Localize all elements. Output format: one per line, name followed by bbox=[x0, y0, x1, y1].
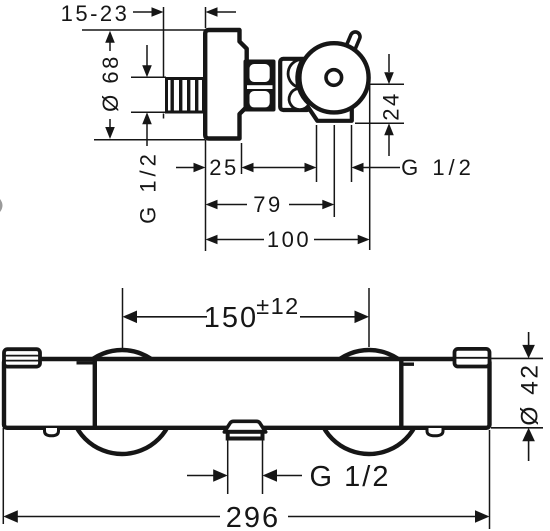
svg-text:15-23: 15-23 bbox=[61, 1, 130, 26]
lever knob on handwheel bbox=[345, 30, 362, 53]
grip mark dash (right) bbox=[403, 363, 415, 366]
extension line from escutcheon base bbox=[205, 140, 207, 251]
left wall connector bbox=[4, 349, 40, 366]
inlet thread (hatched pipe nipple) bbox=[167, 79, 204, 113]
hose outlet union (center) bbox=[224, 421, 265, 438]
wire: wall reference extension line bbox=[163, 7, 165, 119]
stray cropped glyph at page edge bbox=[0, 199, 3, 212]
svg-text:24: 24 bbox=[379, 91, 404, 120]
stop button (right) bbox=[427, 428, 443, 436]
dimension 15-23 bbox=[61, 1, 236, 28]
right wall escutcheon disc bbox=[317, 350, 421, 454]
svg-text:150: 150 bbox=[204, 302, 258, 334]
dimension Ø 42 bbox=[491, 332, 544, 461]
svg-text:296: 296 bbox=[226, 502, 280, 531]
escutcheon (wall flange, side view) bbox=[205, 30, 247, 139]
body seam line (right) bbox=[399, 358, 403, 429]
svg-text:G 1/2: G 1/2 bbox=[401, 155, 475, 180]
dimension 100 bbox=[206, 227, 370, 252]
handwheel (outer circle) bbox=[299, 43, 368, 112]
dimension 150±12 bbox=[123, 288, 370, 350]
body seam line (left) bbox=[93, 358, 97, 429]
dimension 25 bbox=[176, 143, 317, 180]
outlet spigot (under handle) bbox=[304, 101, 352, 121]
extension line handle axis bbox=[333, 125, 335, 217]
handle grip scallops bbox=[288, 60, 302, 88]
svg-text:25: 25 bbox=[209, 155, 238, 180]
svg-text:Ø 68: Ø 68 bbox=[98, 54, 123, 112]
svg-text:G 1/2: G 1/2 bbox=[136, 150, 161, 224]
svg-text:100: 100 bbox=[267, 227, 311, 252]
mixer body bar bbox=[4, 359, 490, 428]
dimension 79 bbox=[206, 192, 335, 217]
left wall escutcheon disc bbox=[70, 350, 174, 454]
dimension 296 bbox=[3, 428, 489, 531]
svg-text:±12: ±12 bbox=[256, 293, 300, 319]
svg-text:G 1/2: G 1/2 bbox=[310, 461, 391, 493]
node: top reference line (escutcheon top) bbox=[82, 29, 205, 31]
handwheel hub (inner circle) bbox=[326, 70, 342, 86]
temperature stop button (left) bbox=[45, 428, 59, 436]
svg-text:79: 79 bbox=[253, 192, 282, 217]
dimension Ø 68 bbox=[98, 31, 123, 139]
extension line handle outer edge bbox=[369, 84, 371, 250]
dimension G 1/2 (inlet, left) bbox=[131, 45, 166, 224]
svg-text:Ø 42: Ø 42 bbox=[517, 362, 544, 425]
grip mark dash (left) bbox=[77, 361, 94, 364]
right wall connector bbox=[455, 349, 490, 367]
union nut (hex nut, side view) bbox=[244, 60, 276, 112]
valve body block bbox=[280, 59, 310, 110]
dimension G 1/2 (outlet, right) bbox=[317, 125, 475, 182]
dimension 24 (axis to outlet) bbox=[355, 54, 404, 156]
node: bottom reference line (escutcheon bottom) bbox=[94, 139, 205, 141]
dimension G 1/2 (hose outlet) bbox=[187, 432, 390, 494]
